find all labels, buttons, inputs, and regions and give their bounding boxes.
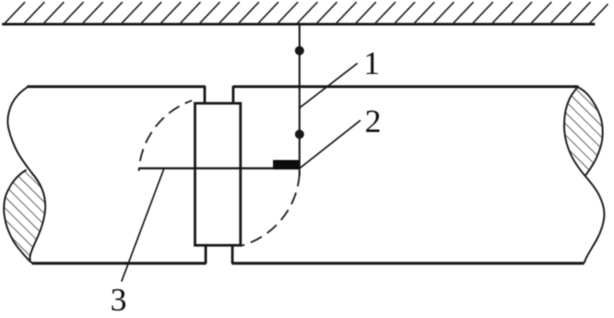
gauge block (item 2) xyxy=(273,160,299,170)
left shaft break lens left arc xyxy=(4,170,30,261)
svg-text:1: 1 xyxy=(364,46,381,82)
straightedge rod (item 3) xyxy=(139,167,299,169)
shaft bottom line right segment xyxy=(232,262,584,265)
coupling sleeve rectangle xyxy=(195,103,241,245)
ceiling hatch xyxy=(5,2,608,23)
right shaft break S-curve xyxy=(564,87,604,263)
shaft bottom line left segment xyxy=(32,262,206,265)
wire dot upper xyxy=(295,46,304,55)
shaft joint gap upper verticals xyxy=(205,86,234,105)
coupling flange phantom circle, upper-left dashed arc xyxy=(139,101,192,172)
left shaft break lens hatched fill xyxy=(4,170,45,261)
right shaft break lens right arc xyxy=(578,87,603,176)
wire dot lower xyxy=(295,130,304,139)
coupling flange phantom circle, lower-right dashed arc xyxy=(241,174,300,246)
right shaft break lens hatched fill xyxy=(564,87,602,176)
shaft top line right segment xyxy=(233,85,579,88)
leader line 1 xyxy=(299,63,358,108)
leader line 3 xyxy=(122,169,165,282)
svg-text:3: 3 xyxy=(110,283,127,314)
leader line 2 xyxy=(300,120,361,168)
ceiling line xyxy=(2,23,595,26)
svg-text:2: 2 xyxy=(365,104,382,140)
shaft joint gap lower verticals xyxy=(206,245,233,264)
shaft top line left segment xyxy=(27,85,205,88)
plumb wire (item 1) xyxy=(299,25,301,176)
left shaft break S-curve xyxy=(8,87,46,263)
